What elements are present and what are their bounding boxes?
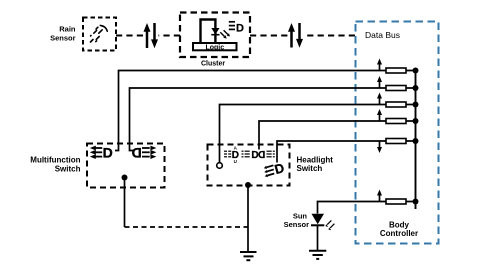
ground headlight xyxy=(240,252,257,260)
sun sensor photodiode xyxy=(312,214,325,225)
body controller box (blue dashed) xyxy=(356,22,439,244)
photodiode light arrows xyxy=(326,220,335,230)
arrow up (cluster-bus) xyxy=(288,23,295,48)
junction dot headlight xyxy=(245,182,251,188)
svg-text:Rain: Rain xyxy=(59,25,76,34)
arrow down (cluster-bus) xyxy=(296,23,303,48)
cluster tower xyxy=(201,20,216,43)
resistor R3 xyxy=(386,102,406,107)
svg-text:Switch: Switch xyxy=(55,165,81,174)
wire sun sensor down xyxy=(317,225,319,251)
junction dot wire 4 xyxy=(413,118,419,124)
junction dot wire 5 xyxy=(413,138,419,144)
svg-text:Data Bus: Data Bus xyxy=(365,30,400,40)
cluster LED arrows xyxy=(220,30,228,36)
junction dot wire 1 xyxy=(413,68,419,74)
svg-text:Controller: Controller xyxy=(380,229,418,238)
rain sensor icon xyxy=(91,25,108,42)
svg-text:D: D xyxy=(103,145,113,161)
svg-text:D: D xyxy=(251,150,258,161)
wire 3 xyxy=(220,105,416,163)
wire 4 xyxy=(259,121,416,150)
resistor R2 xyxy=(386,86,406,91)
low beam icon (tilted) xyxy=(273,160,286,177)
arrow up wire 1 xyxy=(377,59,382,71)
svg-text:Sensor: Sensor xyxy=(284,220,310,229)
svg-text:Sensor: Sensor xyxy=(50,34,76,43)
svg-text:U: U xyxy=(234,159,237,164)
svg-text:Switch: Switch xyxy=(297,164,323,173)
svg-text:Multifunction: Multifunction xyxy=(30,156,80,165)
arrow down (rain-cluster) xyxy=(151,23,158,48)
resistor R1 xyxy=(386,68,406,73)
svg-text:Headlight: Headlight xyxy=(297,155,334,164)
svg-text:D: D xyxy=(132,145,142,161)
right beam icon (mirrored D + arrows right) xyxy=(132,145,142,161)
dashed ground link wire xyxy=(125,226,249,228)
headlight switch box xyxy=(208,145,290,186)
junction dot wire 6 xyxy=(413,199,419,205)
wire rain sensor to cluster (dashed) xyxy=(116,35,143,37)
wire 5 xyxy=(277,141,416,163)
svg-text:Cluster: Cluster xyxy=(201,61,225,68)
junction dot wire 3 xyxy=(413,102,419,108)
wire from multifunction dot down xyxy=(124,178,126,228)
data bus vertical line xyxy=(415,71,417,210)
auto position icon xyxy=(224,151,231,157)
parking light icon xyxy=(242,151,250,157)
arrow up wire 4 xyxy=(377,109,382,121)
arrow up wire 2 xyxy=(377,76,382,88)
switch terminal circle xyxy=(217,163,223,169)
arrow up wire 6 xyxy=(377,190,382,202)
cluster beam icon (three lines + D) xyxy=(229,22,235,30)
cluster LED diode xyxy=(211,28,219,35)
resistor R4 xyxy=(386,119,406,124)
wire 1 xyxy=(115,71,416,151)
wire 2 xyxy=(130,88,416,151)
arrow down wire 5 xyxy=(377,142,382,154)
cluster box xyxy=(180,13,250,58)
wire headlight dot to ground xyxy=(247,185,249,252)
logic box xyxy=(193,43,237,50)
wire cluster to data bus (dashed) xyxy=(250,35,288,37)
svg-text:D: D xyxy=(258,150,265,161)
arrow up wire 3 xyxy=(377,93,382,105)
svg-text:D: D xyxy=(236,23,244,35)
resistor R6 xyxy=(386,199,406,204)
ground sun sensor xyxy=(309,251,326,259)
multifunction switch box xyxy=(87,144,165,188)
left beam icon (arrows left + D) xyxy=(95,148,103,157)
arrow up (rain-cluster) xyxy=(144,23,151,48)
junction dot wire 2 xyxy=(413,85,419,91)
svg-text:Logic: Logic xyxy=(205,44,224,51)
resistor R5 xyxy=(386,139,406,144)
wire 6 xyxy=(318,202,416,214)
junction dot multifunction xyxy=(122,175,128,181)
rain sensor box xyxy=(83,18,116,51)
